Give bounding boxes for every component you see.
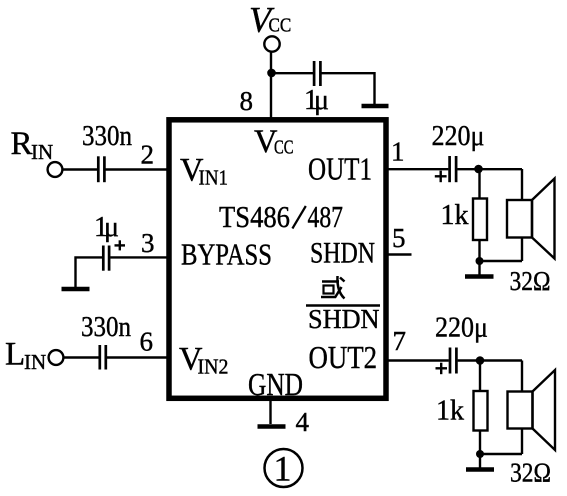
input terminal LIN label: [5, 337, 46, 375]
svg-text:5: 5: [392, 223, 406, 253]
input terminal RIN circle: [48, 162, 63, 177]
capacitor 1u decoupling: [314, 61, 320, 86]
capacitor 330n (R channel): [98, 156, 104, 182]
plus sign (bypass cap polarity): [115, 240, 126, 250]
svg-text:2: 2: [141, 140, 155, 170]
svg-text:1: 1: [391, 137, 405, 167]
svg-text:330n: 330n: [82, 121, 132, 152]
chinese character "or" (huo) drawn as strokes: [321, 276, 345, 299]
svg-text:1: 1: [274, 449, 292, 489]
capacitor 220u output 1: [450, 156, 457, 182]
svg-text:3: 3: [141, 228, 155, 258]
ground (bypass): [62, 287, 90, 292]
svg-text:CC: CC: [269, 15, 292, 37]
overline of SHDN-bar: [306, 304, 380, 306]
wire: speaker 1 top lead: [521, 169, 523, 200]
IC pin name VCC: [254, 124, 294, 160]
svg-text:1μ: 1μ: [94, 212, 119, 243]
speaker 2 (32 ohm): [508, 370, 556, 450]
wire: VCC terminal to pin 8: [270, 52, 272, 120]
input terminal LIN circle: [49, 350, 64, 365]
wire: GND pin 4 stub: [269, 398, 271, 424]
svg-text:TS486: TS486: [219, 199, 290, 234]
wire: bottom node 2 to speaker return: [480, 453, 522, 455]
svg-text:4: 4: [296, 407, 310, 437]
ground (channel 2): [466, 467, 494, 472]
plus sign (output cap 1 polarity): [435, 171, 447, 183]
wire: resistor 1 to bottom node: [478, 240, 480, 261]
wire: output cap 2 to speaker 2: [458, 359, 522, 361]
IC part number TS486/487: [219, 199, 343, 234]
wire: speaker 2 bottom lead: [521, 429, 523, 455]
wire: bottom node 1 to speaker return: [480, 260, 523, 262]
junction: VCC node: [267, 69, 276, 78]
svg-text:487: 487: [308, 199, 344, 234]
wire: speaker 2 top lead: [521, 361, 523, 392]
svg-text:GND: GND: [248, 367, 303, 402]
wire: resistor 2 to bottom node: [479, 431, 481, 455]
svg-text:SHDN: SHDN: [308, 303, 380, 334]
wire: node to resistor 2: [479, 361, 481, 392]
wire: RIN to coupling cap: [63, 168, 98, 170]
VCC terminal: [264, 36, 279, 51]
wire: node to resistor 1: [478, 169, 480, 199]
svg-text:330n: 330n: [81, 312, 131, 343]
svg-text:IN1: IN1: [199, 166, 229, 190]
ground (pin 4): [258, 424, 286, 429]
wire: bottom node 2 to ground: [479, 454, 481, 468]
capacitor 1u bypass: [103, 246, 109, 271]
ground (decoupling): [362, 104, 389, 109]
svg-text:IN2: IN2: [198, 355, 229, 379]
figure number 1 circled: [265, 449, 303, 489]
junction: output 2 node: [476, 356, 485, 365]
wire: LIN to coupling cap: [64, 356, 99, 358]
supply label VCC: [249, 0, 291, 40]
wire: cap to pin 2: [106, 168, 170, 170]
svg-text:SHDN: SHDN: [310, 237, 375, 270]
IC pin name VIN1: [180, 153, 228, 190]
svg-text:1k: 1k: [441, 200, 469, 231]
junction: output 1 node: [474, 165, 483, 174]
wire: cap to pin 6: [107, 356, 169, 358]
wire: speaker 1 bottom lead: [521, 238, 523, 262]
IC U1 TS486/487 box: [169, 120, 386, 399]
svg-text:8: 8: [240, 86, 254, 116]
wire: output cap 1 to speaker 1: [457, 168, 522, 170]
wire: bottom node 1 to ground: [478, 261, 480, 275]
wire: SHDN pin stub: [386, 253, 412, 255]
svg-text:220μ: 220μ: [432, 121, 485, 152]
junction: bottom node 1: [476, 257, 484, 265]
wire: OUT2 to output cap: [386, 359, 449, 361]
capacitor 220u output 2: [450, 348, 456, 374]
svg-text:IN: IN: [24, 350, 46, 374]
svg-text:IN: IN: [31, 140, 53, 164]
svg-text:R: R: [11, 126, 33, 162]
input terminal RIN label: [11, 126, 54, 164]
IC pin name VIN2: [179, 342, 229, 379]
resistor 1k (channel 2): [474, 391, 488, 431]
wire: bypass cap to pin 3: [110, 256, 169, 258]
svg-text:CC: CC: [274, 137, 294, 159]
wire: decoupling cap to ground: [322, 73, 375, 104]
svg-text:OUT2: OUT2: [309, 339, 378, 375]
resistor 1k (channel 1): [473, 199, 487, 241]
capacitor 330n (L channel): [100, 345, 106, 370]
wire: VCC node to decoupling capacitor: [271, 72, 313, 74]
plus sign (output cap 2 polarity): [436, 363, 448, 375]
svg-text:220μ: 220μ: [435, 313, 488, 344]
svg-text:1k: 1k: [436, 396, 464, 427]
svg-text:1μ: 1μ: [304, 85, 329, 116]
wire: OUT1 to output cap: [386, 168, 448, 170]
svg-text:BYPASS: BYPASS: [181, 238, 272, 272]
svg-text:7: 7: [393, 326, 407, 356]
svg-text:32Ω: 32Ω: [510, 266, 551, 296]
wire: bypass cap to ground: [76, 257, 103, 287]
ground (channel 1): [465, 274, 494, 279]
junction: bottom node 2: [476, 450, 484, 458]
svg-text:32Ω: 32Ω: [510, 458, 551, 488]
svg-text:6: 6: [140, 327, 154, 357]
svg-text:OUT1: OUT1: [308, 151, 372, 187]
svg-text:L: L: [5, 337, 25, 373]
speaker 1 (32 ohm): [507, 179, 555, 259]
